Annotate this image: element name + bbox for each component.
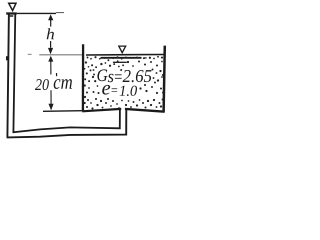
ink tick on standpipe left wall xyxy=(6,56,8,60)
water level underline (standpipe) xyxy=(10,15,14,17)
level extension line xyxy=(17,12,56,14)
h dimension upper arrow xyxy=(48,14,53,20)
water level bar in standpipe xyxy=(6,12,17,14)
label cm xyxy=(54,79,72,89)
label h xyxy=(47,28,54,39)
gray water-level line xyxy=(39,54,83,56)
label equals sign 2 xyxy=(112,88,118,91)
label 20 xyxy=(35,79,49,90)
20cm dimension lower shaft and arrow xyxy=(50,90,52,104)
label s subscript xyxy=(108,74,114,82)
water level triangle (standpipe) xyxy=(9,3,16,10)
tank water second line xyxy=(101,57,142,59)
tank bottom right segment xyxy=(125,109,165,112)
tank left wall xyxy=(82,44,84,111)
pipe outer wall xyxy=(7,109,126,137)
label e xyxy=(102,85,110,95)
20cm dimension upper arrow xyxy=(48,56,53,62)
standpipe right wall xyxy=(13,13,15,133)
pipe inner wall xyxy=(13,110,120,133)
gray water-level line (dash) xyxy=(28,53,32,55)
20cm dimension tick above text xyxy=(56,73,58,76)
level extension line light segment xyxy=(56,12,64,14)
tank water line xyxy=(86,54,164,57)
soil stipple dots xyxy=(83,56,164,110)
20cm bottom extension line xyxy=(43,110,83,113)
water level triangle (tank) xyxy=(119,46,126,53)
tank bottom left segment xyxy=(82,109,121,111)
label 1.0 xyxy=(120,86,137,96)
h dimension lower arrow xyxy=(50,41,52,48)
label 2.65 xyxy=(123,70,152,82)
tank water underline xyxy=(113,61,127,63)
label equals sign 1 xyxy=(115,74,122,78)
label G xyxy=(97,69,107,81)
standpipe left wall xyxy=(7,13,8,138)
tank right wall xyxy=(164,46,165,112)
